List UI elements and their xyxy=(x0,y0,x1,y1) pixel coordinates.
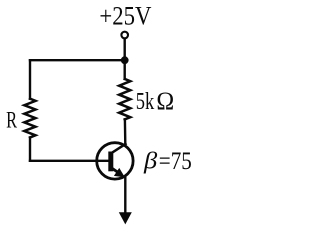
wire emitter vertical xyxy=(124,178,126,214)
wire left upper vertical xyxy=(29,60,31,98)
transistor Q1 circle xyxy=(97,143,133,179)
svg-text:5k: 5k xyxy=(136,89,155,115)
supply terminal circle xyxy=(121,32,128,39)
svg-text:=75: =75 xyxy=(159,146,192,175)
transistor Q1 emitter arrowhead xyxy=(114,168,125,178)
svg-text:β: β xyxy=(143,148,158,175)
transistor Q1 collector diagonal xyxy=(111,144,125,153)
wire junction to RC resistor xyxy=(123,61,125,79)
wire top horizontal xyxy=(30,59,125,61)
wire terminal to junction xyxy=(123,39,125,60)
wire bottom horizontal to base xyxy=(30,160,108,162)
transistor Q1 base bar xyxy=(108,152,113,172)
emitter output arrowhead xyxy=(119,212,132,224)
resistor R zigzag xyxy=(24,99,35,138)
svg-text:Ω: Ω xyxy=(156,87,174,115)
resistor RC 5k zigzag xyxy=(119,79,130,120)
transistor Q1 emitter diagonal xyxy=(111,168,118,173)
junction node dot xyxy=(121,56,129,64)
wire left lower vertical xyxy=(29,138,31,161)
svg-text:+25V: +25V xyxy=(99,0,151,30)
svg-text:R: R xyxy=(6,108,18,133)
wire RC to collector xyxy=(124,119,127,144)
